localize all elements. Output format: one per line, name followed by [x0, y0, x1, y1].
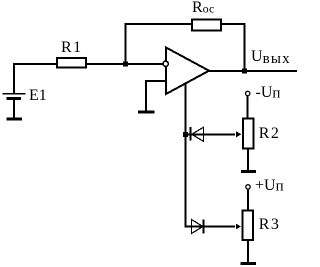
diode VD1 cathode bar [190, 127, 192, 141]
battery E1 negative plate [7, 97, 21, 100]
diode VD2 (points right) [192, 220, 203, 234]
op-amp U1 triangle [166, 48, 209, 95]
label Roc [192, 0, 214, 16]
wire: op-amp lower edge down to diode branch [186, 83, 192, 227]
wire: R2 to ground [247, 149, 249, 170]
label -Up [256, 85, 281, 102]
wire: +Up terminal to R3 [247, 189, 249, 209]
battery E1 positive plate [3, 93, 26, 95]
wire: -Up terminal to R2 [247, 96, 249, 118]
label R2 [259, 126, 281, 142]
resistor Roc (feedback) [192, 20, 221, 31]
R2 wiper arrowhead [236, 131, 241, 137]
wire: main input rail from battery to op-amp inverting input [14, 64, 163, 94]
diode VD1 (points left) [192, 127, 204, 141]
ground (battery) [6, 118, 22, 121]
diode VD2 cathode bar [203, 220, 205, 234]
wire: VD2 to R3 wiper [192, 226, 236, 228]
ground (op-amp non-inverting input) [138, 110, 155, 113]
wire: node C through diode VD1 to R2 wiper [186, 133, 235, 135]
op-amp U1 inverting input bubble [163, 61, 168, 66]
label E1 [29, 88, 47, 104]
wire: battery negative to ground [13, 100, 15, 118]
terminal +Up [246, 185, 250, 189]
wire: feedback from node A up and right to Roc [126, 24, 192, 64]
label Uvyh [251, 49, 291, 67]
ground (R2) [241, 170, 256, 173]
R3 wiper arrowhead [236, 224, 241, 230]
potentiometer R2 [243, 119, 254, 149]
potentiometer R3 [242, 211, 253, 241]
wire: R3 to ground [247, 241, 249, 262]
label R1 [61, 40, 83, 56]
label +Up [255, 178, 284, 195]
node B: output junction [242, 68, 247, 73]
ground (R3) [241, 262, 257, 265]
node C: diode branch junction [183, 132, 188, 137]
wire: Roc output side down to output rail [221, 24, 245, 71]
terminal -Up [246, 91, 250, 95]
wire: output rail [207, 70, 297, 72]
wire: non-inverting input to ground [146, 81, 166, 111]
node A: junction of input rail and feedback [123, 61, 128, 66]
resistor R1 [57, 58, 86, 68]
label R3 [259, 217, 281, 233]
